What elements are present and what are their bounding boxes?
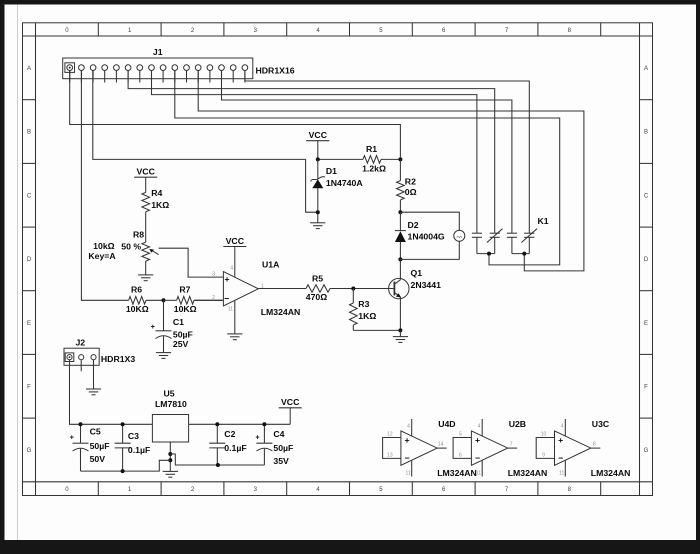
node U5 gnd b	[168, 458, 172, 462]
op-amp U3C LM324AN	[536, 419, 630, 478]
capacitor C1 50uF (polarized)	[151, 300, 193, 352]
svg-text:D: D	[27, 257, 32, 263]
svg-text:D1: D1	[326, 166, 337, 176]
connector J1 HDR1X16	[63, 47, 295, 78]
svg-text:E: E	[644, 321, 648, 327]
op-amp U4D LM324AN	[383, 419, 477, 478]
node K1 contact2 common	[522, 252, 526, 256]
svg-text:10kΩ: 10kΩ	[93, 241, 114, 251]
resistor R1 1.2k	[318, 144, 401, 174]
svg-text:4: 4	[478, 423, 481, 429]
diode D2 1N4004G	[395, 212, 445, 259]
relay K1 contact 2	[507, 229, 537, 254]
svg-text:C: C	[644, 193, 649, 199]
svg-text:C3: C3	[128, 431, 139, 441]
svg-text:VCC: VCC	[137, 167, 156, 177]
capacitor C2 0.1uF	[209, 424, 246, 465]
diode D1 1N4740A (zener)	[311, 159, 364, 222]
ground at D1	[310, 223, 325, 229]
svg-text:11: 11	[228, 307, 233, 313]
resistor R7 10K	[164, 284, 223, 314]
svg-text:U3C: U3C	[592, 419, 610, 429]
node K1 contact1 common	[487, 252, 491, 256]
svg-text:10KΩ: 10KΩ	[174, 304, 197, 314]
svg-text:11: 11	[559, 470, 564, 476]
svg-text:1N4740A: 1N4740A	[326, 178, 363, 188]
node U5 gnd a	[168, 452, 172, 456]
svg-text:HDR1X3: HDR1X3	[101, 354, 135, 364]
power VCC at rail	[279, 397, 302, 424]
svg-text:6: 6	[459, 453, 462, 459]
transistor Q1 2N3441	[389, 259, 442, 330]
svg-text:C1: C1	[173, 317, 184, 327]
power VCC at D1	[306, 130, 329, 159]
svg-text:LM324AN: LM324AN	[437, 468, 477, 478]
svg-text:3: 3	[212, 272, 215, 278]
wire J1 pin6 to K1 contact1 moving	[128, 71, 495, 234]
svg-text:35V: 35V	[273, 456, 289, 466]
wire J1 pin14 to K1 contact2 fixed	[222, 71, 512, 234]
connector J2 HDR1X3	[64, 337, 135, 365]
wire J1 pin1 to R1/R2 node	[70, 71, 401, 160]
svg-text:1.2kΩ: 1.2kΩ	[362, 164, 386, 174]
svg-text:11: 11	[476, 470, 481, 476]
capacitor C4 50uF (polarized)	[255, 424, 293, 466]
ground at R8	[138, 275, 153, 281]
wire J1 pin10 to K1 contact1 common	[175, 71, 560, 265]
ground at U5	[163, 471, 178, 477]
svg-text:U2B: U2B	[509, 419, 526, 429]
svg-text:470Ω: 470Ω	[306, 292, 327, 302]
svg-text:R5: R5	[312, 274, 323, 284]
svg-text:VCC: VCC	[309, 130, 328, 140]
ground at C1	[156, 353, 171, 359]
node D2/coil/Q1 collector	[398, 257, 402, 261]
svg-text:0.1µF: 0.1µF	[128, 445, 150, 455]
svg-text:25V: 25V	[173, 339, 189, 349]
svg-text:A: A	[27, 66, 31, 72]
svg-text:+: +	[224, 274, 229, 284]
wire U1A Vee stub	[234, 300, 236, 334]
svg-text:LM7810: LM7810	[155, 399, 187, 409]
power VCC at R4	[134, 167, 157, 193]
svg-text:LM324AN: LM324AN	[261, 307, 301, 317]
node C3 rail	[121, 422, 125, 426]
svg-text:4: 4	[561, 423, 564, 429]
svg-text:+: +	[70, 435, 74, 442]
svg-text:F: F	[644, 385, 648, 391]
svg-text:−: −	[405, 453, 410, 463]
svg-text:G: G	[644, 448, 649, 454]
svg-text:+: +	[151, 324, 155, 331]
ground at Q1	[393, 337, 408, 343]
wire gnd jog right	[170, 454, 264, 465]
relay K1 coil	[400, 212, 548, 259]
wire R8 to ground	[145, 261, 147, 275]
node R1/R2/pin1	[398, 157, 402, 161]
resistor R2 0ohm	[397, 159, 417, 212]
svg-text:J1: J1	[153, 47, 163, 57]
svg-text:Q1: Q1	[411, 268, 423, 278]
svg-text:4: 4	[407, 423, 410, 429]
svg-text:14: 14	[438, 442, 444, 448]
svg-text:D2: D2	[408, 220, 419, 230]
svg-text:HDR1X16: HDR1X16	[256, 66, 295, 76]
svg-text:J2: J2	[75, 337, 85, 347]
svg-text:U5: U5	[163, 388, 174, 398]
capacitor C5 50uF (polarized)	[70, 424, 110, 471]
relay K1 contact 1	[472, 229, 503, 254]
svg-text:LM324AN: LM324AN	[591, 468, 631, 478]
wire U5 ground pin	[169, 442, 171, 471]
node VCC/R1/D1	[316, 157, 320, 161]
power VCC at U1A	[223, 236, 246, 277]
wire J2 pin3 to ground	[93, 360, 95, 389]
svg-text:B: B	[644, 130, 648, 136]
svg-text:1KΩ: 1KΩ	[151, 200, 169, 210]
ground at U1A	[227, 334, 242, 340]
svg-text:R2: R2	[405, 177, 416, 187]
svg-text:B: B	[27, 130, 31, 136]
resistor R6 10K	[126, 284, 164, 314]
node C4 rail	[262, 422, 266, 426]
node Q1 emitter/R3/ground	[398, 328, 402, 332]
op-amp U2B LM324AN	[453, 419, 547, 478]
node R5/R3/Q1 base	[351, 287, 355, 291]
ground at J2	[86, 389, 101, 395]
svg-text:D: D	[644, 257, 649, 263]
resistor R4 1K	[142, 188, 169, 242]
svg-text:0Ω: 0Ω	[405, 187, 417, 197]
wire J2 pin1 to rail	[70, 360, 153, 425]
svg-text:R4: R4	[151, 188, 162, 198]
wire J1 pin3 to D1 anode	[93, 71, 318, 213]
svg-text:E: E	[27, 321, 31, 327]
capacitor C3 0.1uF	[115, 424, 151, 471]
potentiometer R8 10k	[88, 230, 158, 262]
svg-text:1KΩ: 1KΩ	[358, 311, 376, 321]
svg-text:C2: C2	[224, 429, 235, 439]
svg-text:0.1µF: 0.1µF	[224, 443, 246, 453]
svg-text:K1: K1	[538, 216, 549, 226]
svg-text:F: F	[27, 385, 31, 391]
wire J1 pin12 to K1 contact2 common	[198, 71, 584, 271]
svg-text:LM324AN: LM324AN	[508, 468, 548, 478]
svg-text:U4D: U4D	[438, 419, 455, 429]
wire gnd jog left	[81, 460, 171, 471]
svg-text:Key=A: Key=A	[88, 251, 116, 261]
svg-text:2N3441: 2N3441	[411, 280, 442, 290]
svg-text:C5: C5	[90, 426, 101, 436]
svg-text:C: C	[27, 193, 32, 199]
svg-text:+: +	[475, 435, 480, 445]
svg-text:11: 11	[405, 470, 410, 476]
J1 pin stubs	[70, 70, 245, 82]
node C5 rail	[79, 422, 83, 426]
svg-text:−: −	[475, 453, 480, 463]
svg-text:C4: C4	[273, 429, 284, 439]
regulator U5 LM7810	[152, 388, 188, 442]
svg-text:R3: R3	[358, 299, 369, 309]
svg-text:U1A: U1A	[262, 260, 280, 270]
svg-text:VCC: VCC	[281, 397, 300, 407]
node R2/D2/coil	[398, 210, 402, 214]
resistor R3 1K	[350, 289, 401, 331]
svg-text:A: A	[644, 66, 648, 72]
svg-text:R8: R8	[133, 230, 144, 240]
svg-text:+: +	[558, 435, 563, 445]
svg-text:10KΩ: 10KΩ	[126, 304, 149, 314]
node C2 rail	[215, 422, 219, 426]
resistor R5 470	[258, 274, 394, 302]
node C2 bottom	[216, 463, 220, 467]
wire U1A -input	[194, 299, 223, 301]
node R6/R7/C1	[162, 298, 166, 302]
svg-text:7: 7	[510, 442, 513, 448]
node C3 bottom	[121, 469, 125, 473]
wire J1 pin2 to R6	[81, 71, 128, 301]
svg-text:10: 10	[541, 432, 547, 438]
svg-text:12: 12	[387, 432, 393, 438]
svg-text:50V: 50V	[90, 454, 106, 464]
svg-text:50µF: 50µF	[90, 441, 110, 451]
svg-text:VCC: VCC	[226, 236, 245, 246]
svg-text:5: 5	[459, 432, 462, 438]
node D1 anode/ground	[316, 210, 320, 214]
svg-text:+: +	[405, 435, 410, 445]
svg-text:50 %: 50 %	[121, 242, 141, 252]
svg-text:9: 9	[542, 453, 545, 459]
svg-text:1N4004G: 1N4004G	[408, 232, 445, 242]
wire R8 wiper to U1A +input	[159, 248, 224, 277]
J2 pin2 stub	[80, 360, 82, 372]
op-amp U1A LM324AN	[212, 260, 300, 317]
svg-text:G: G	[27, 448, 32, 454]
wire J1 pin8 to K1 contact1 fixed	[152, 71, 477, 234]
svg-text:8: 8	[593, 442, 596, 448]
svg-text:+: +	[255, 435, 259, 442]
svg-text:−: −	[558, 453, 563, 463]
svg-text:−: −	[224, 294, 229, 304]
svg-text:13: 13	[387, 453, 393, 459]
svg-text:4: 4	[230, 265, 233, 271]
svg-text:R7: R7	[179, 284, 190, 294]
svg-text:50µF: 50µF	[273, 443, 293, 453]
wire rail U5 to VCC	[189, 423, 291, 425]
svg-text:R1: R1	[366, 144, 377, 154]
svg-text:R6: R6	[131, 284, 142, 294]
wire Q1 emitter to ground	[399, 330, 401, 336]
wire J1 pin16 to K1 contact2 moving	[245, 71, 529, 234]
